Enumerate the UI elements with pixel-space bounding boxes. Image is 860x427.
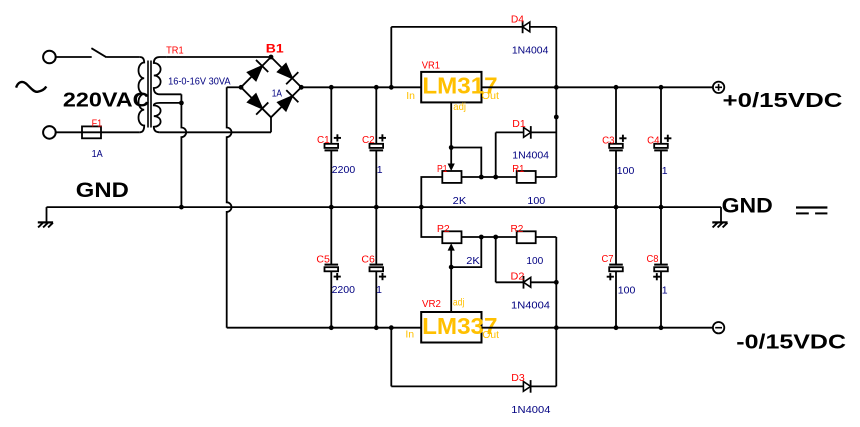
svg-text:In: In <box>406 90 415 102</box>
svg-text:P1: P1 <box>437 163 448 175</box>
svg-text:C2: C2 <box>362 134 375 146</box>
voltage regulator VR2 LM337 box <box>421 312 481 343</box>
wire: switch to transformer primary <box>107 56 140 58</box>
bridge diode: bottom corner to right corner <box>277 96 293 112</box>
svg-text:2K: 2K <box>466 255 480 267</box>
svg-text:GND: GND <box>722 193 773 217</box>
svg-text:GND: GND <box>76 178 129 202</box>
svg-text:C7: C7 <box>602 253 614 265</box>
ground symbol right <box>712 221 727 223</box>
resistor R2 <box>517 231 536 243</box>
node: C6 on -input rail <box>374 325 379 330</box>
fuse F1 <box>82 131 101 133</box>
node: center tap junction <box>179 101 184 106</box>
svg-text:C4: C4 <box>647 135 660 147</box>
capacitor C3 <box>615 87 617 144</box>
svg-text:In: In <box>405 329 414 341</box>
svg-text:2K: 2K <box>453 195 467 207</box>
polarity + (C2) <box>379 137 386 139</box>
svg-text:100: 100 <box>618 285 636 297</box>
potentiometer P2 body <box>442 231 461 243</box>
svg-text:adj: adj <box>453 296 465 308</box>
node: D4 branch on input rail <box>389 85 394 90</box>
wire: adj node to P1 right side loop <box>451 148 481 178</box>
svg-text:100: 100 <box>527 195 545 207</box>
svg-text:C5: C5 <box>316 254 330 266</box>
terminal: AC input bottom <box>43 126 56 139</box>
node: C1 on input rail <box>329 85 334 90</box>
node: C2 on input rail <box>374 85 379 90</box>
ground rail <box>47 206 722 208</box>
capacitor C1 <box>330 87 332 144</box>
node: D2 on output column <box>554 280 559 285</box>
switch SW1 lever <box>91 48 106 57</box>
bridge diode: left corner to bottom corner <box>247 94 263 110</box>
node: bridge top corner <box>269 55 274 60</box>
svg-text:VR2: VR2 <box>422 298 441 310</box>
terminal: +0/15VDC output <box>713 82 724 93</box>
svg-text:100: 100 <box>526 255 543 267</box>
svg-text:B1: B1 <box>266 43 285 55</box>
transformer TR1 primary winding <box>138 57 144 132</box>
svg-text:C8: C8 <box>647 253 659 265</box>
node: C4 on +output rail <box>659 85 664 90</box>
node: P1/loop junction <box>479 175 484 180</box>
svg-text:1: 1 <box>662 285 668 297</box>
node: D3 branch on -input rail <box>389 325 394 330</box>
polarity + (C4) <box>664 137 671 139</box>
wire: P1 left terminal to ground rail <box>421 177 442 207</box>
svg-text:-0/15VDC: -0/15VDC <box>736 331 846 353</box>
node: C1/C5 on ground rail <box>329 205 334 210</box>
node: output column stray junction <box>554 115 559 120</box>
potentiometer P2 wiper arrow <box>450 249 452 268</box>
wire: D1 left riser <box>495 132 497 177</box>
node: center tap on ground rail <box>179 205 184 210</box>
svg-text:C3: C3 <box>602 135 615 147</box>
svg-text:F1: F1 <box>92 118 103 130</box>
wire: LM317 output rail to +terminal <box>482 86 713 88</box>
node: P2/D2 junction <box>493 235 498 240</box>
wire: LM337 output rail to -terminal <box>482 327 713 329</box>
capacitor C2 <box>375 87 377 144</box>
ground symbol left <box>38 221 53 223</box>
wire: LM337 adj pin up <box>450 267 452 312</box>
node: D4/output rail junction <box>554 85 559 90</box>
svg-text:2200: 2200 <box>332 164 356 176</box>
svg-text:C1: C1 <box>317 134 330 146</box>
node: C4/C8 on ground rail <box>659 205 664 210</box>
wire: secondary bottom to bridge AC- corner <box>160 131 271 133</box>
capacitor C6 <box>375 207 377 265</box>
wire: ground rail left drop <box>46 207 48 222</box>
diode D2 <box>524 277 531 287</box>
wire: D3 row <box>391 385 523 387</box>
svg-text:16-0-16V 30VA: 16-0-16V 30VA <box>168 75 230 87</box>
node: C7 on -output rail <box>614 325 619 330</box>
wire: AC bottom terminal to fuse F1 <box>56 131 82 133</box>
wire: LM317 adj pin down <box>450 102 452 147</box>
wire: adj node to P2 loop <box>451 237 481 267</box>
DC symbol <box>796 206 827 208</box>
svg-text:1N4004: 1N4004 <box>512 45 549 57</box>
svg-text:1: 1 <box>376 284 382 296</box>
wire: D4 loop top <box>391 26 522 28</box>
wire: secondary center tap down to ground rail <box>180 94 182 103</box>
voltage regulator U VR1 LM317 box <box>421 72 481 103</box>
svg-text:+0/15VDC: +0/15VDC <box>723 89 843 112</box>
wire: ground rail right drop <box>720 207 722 222</box>
node: adj / wiper junction (VR2) <box>449 265 454 270</box>
node: bridge right corner <box>299 85 304 90</box>
transformer TR1 secondary upper winding <box>154 57 182 94</box>
wire: D2 row <box>496 281 524 283</box>
svg-text:D1: D1 <box>512 118 526 130</box>
svg-text:D4: D4 <box>511 14 524 26</box>
svg-text:C6: C6 <box>361 254 375 266</box>
svg-text:1N4004: 1N4004 <box>512 149 549 161</box>
diode D4 <box>523 22 530 32</box>
transformer TR1 core <box>147 61 149 128</box>
transformer TR1 secondary lower winding <box>154 103 182 132</box>
wire: P1 right terminal to R1 <box>462 176 517 178</box>
wire: bridge positive corner to LM317 input <box>301 86 421 88</box>
svg-text:1N4004: 1N4004 <box>511 300 550 312</box>
svg-text:220VAC: 220VAC <box>63 90 150 112</box>
terminal: -0/15VDC output <box>713 322 724 333</box>
svg-text:1N4004: 1N4004 <box>511 404 550 416</box>
bridge rectifier B1 diamond <box>241 57 301 117</box>
node: C2/C6 on ground rail <box>374 205 379 210</box>
wire: D3 loop left drop <box>390 328 392 387</box>
capacitor C8 <box>660 207 662 265</box>
bridge diode: left corner to top corner <box>247 65 263 81</box>
svg-text:R1: R1 <box>512 163 524 175</box>
polarity + (C7) <box>607 276 614 278</box>
svg-text:P2: P2 <box>437 223 450 235</box>
svg-text:Out: Out <box>482 329 499 341</box>
svg-text:D3: D3 <box>511 372 525 384</box>
svg-text:1A: 1A <box>272 88 282 100</box>
node: C3/C7 on ground rail <box>614 205 619 210</box>
potentiometer P1 wiper arrow <box>450 148 452 167</box>
wire: D4 loop right riser / output node column <box>555 27 557 177</box>
svg-text:1A: 1A <box>92 148 103 160</box>
terminal: AC input top <box>43 51 56 64</box>
node: bridge left corner <box>239 85 244 90</box>
node: C8 on -output rail <box>659 325 664 330</box>
wire: AC top terminal to switch <box>56 56 92 58</box>
svg-text:R2: R2 <box>511 223 524 235</box>
svg-text:2200: 2200 <box>332 284 356 296</box>
node: output column on -rail <box>554 325 559 330</box>
capacitor C5 <box>330 207 332 265</box>
capacitor C7 <box>615 207 617 265</box>
node: P1/P2 on ground rail <box>419 205 424 210</box>
wire: R1 to output column <box>536 176 557 178</box>
svg-text:D2: D2 <box>511 271 525 283</box>
capacitor C4 <box>660 87 662 144</box>
wire: D1 row <box>496 131 524 133</box>
resistor R1 <box>517 171 536 183</box>
svg-text:adj: adj <box>453 101 466 113</box>
wire: D2 left riser <box>495 237 497 282</box>
svg-text:VR1: VR1 <box>422 60 440 72</box>
polarity + (C5) <box>334 276 341 278</box>
wire: secondary top to bridge AC+ corner <box>166 56 271 58</box>
polarity + (C3) <box>619 137 626 139</box>
polarity + (C1) <box>334 137 341 139</box>
node: C5 on -input rail <box>329 325 334 330</box>
svg-text:1: 1 <box>662 165 668 177</box>
node: P1/D1 junction <box>493 175 498 180</box>
potentiometer P1 body <box>442 171 461 183</box>
wire: R2 right to output column <box>536 236 557 238</box>
svg-text:Out: Out <box>482 90 500 102</box>
node: P2/loop junction <box>479 235 484 240</box>
polarity + (C6) <box>379 276 386 278</box>
AC source symbol (sine) <box>16 82 46 92</box>
wire: negative output column <box>555 237 557 386</box>
wire: fuse to transformer primary bottom <box>101 131 140 133</box>
svg-text:TR1: TR1 <box>166 44 184 56</box>
wire: D4 loop left riser <box>390 27 392 87</box>
svg-text:1: 1 <box>377 164 383 176</box>
diode D1 <box>524 128 531 138</box>
wire: P2 right terminal to R2 <box>462 236 517 238</box>
wire: bridge negative corner to LM337 input <box>227 86 241 88</box>
polarity + (C8) <box>653 276 660 278</box>
node: C3 on +output rail <box>614 85 619 90</box>
svg-text:100: 100 <box>617 165 635 177</box>
wire: ground column to P2 left terminal <box>421 207 442 237</box>
bridge diode: top corner to right corner <box>277 63 293 79</box>
node: adj / wiper junction (VR1) <box>449 145 454 150</box>
diode D3 <box>523 382 530 392</box>
